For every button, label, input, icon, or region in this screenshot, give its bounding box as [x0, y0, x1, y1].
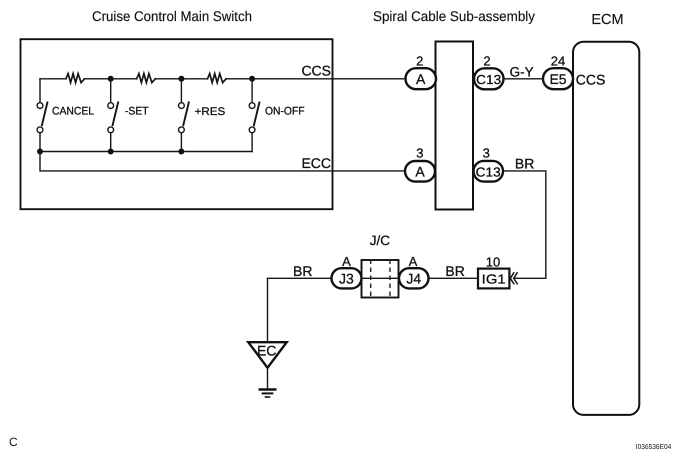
svg-text:2: 2	[416, 54, 423, 69]
svg-text:C: C	[9, 435, 18, 449]
svg-text:I036536E04: I036536E04	[636, 442, 672, 451]
svg-text:J3: J3	[339, 271, 354, 287]
svg-text:CANCEL: CANCEL	[52, 106, 94, 118]
svg-text:A: A	[416, 71, 426, 87]
svg-text:J4: J4	[406, 271, 421, 287]
svg-text:ECC: ECC	[301, 155, 331, 171]
svg-text:IG1: IG1	[482, 272, 506, 287]
svg-text:C13: C13	[476, 165, 501, 180]
svg-text:E5: E5	[549, 71, 566, 87]
svg-text:24: 24	[551, 54, 565, 69]
svg-text:A: A	[415, 164, 425, 180]
svg-text:A: A	[409, 254, 418, 269]
svg-text:CCS: CCS	[576, 72, 606, 88]
svg-text:ECM: ECM	[591, 12, 623, 28]
svg-text:BR: BR	[445, 263, 464, 279]
svg-text:10: 10	[486, 255, 500, 270]
svg-text:-SET: -SET	[125, 106, 149, 118]
svg-text:+RES: +RES	[195, 106, 226, 118]
svg-text:A: A	[342, 254, 351, 269]
svg-text:EC: EC	[257, 343, 276, 359]
svg-text:3: 3	[483, 146, 490, 161]
svg-text:Spiral Cable Sub-assembly: Spiral Cable Sub-assembly	[373, 8, 535, 24]
svg-text:G-Y: G-Y	[510, 65, 534, 80]
svg-text:J/C: J/C	[370, 233, 391, 248]
svg-text:3: 3	[416, 146, 423, 161]
svg-text:BR: BR	[293, 263, 312, 279]
svg-text:2: 2	[483, 54, 490, 69]
svg-text:ON-OFF: ON-OFF	[265, 105, 305, 117]
svg-text:CCS: CCS	[301, 63, 331, 79]
svg-text:BR: BR	[515, 155, 534, 171]
svg-text:C13: C13	[476, 72, 501, 87]
svg-text:Cruise Control Main Switch: Cruise Control Main Switch	[92, 8, 252, 24]
